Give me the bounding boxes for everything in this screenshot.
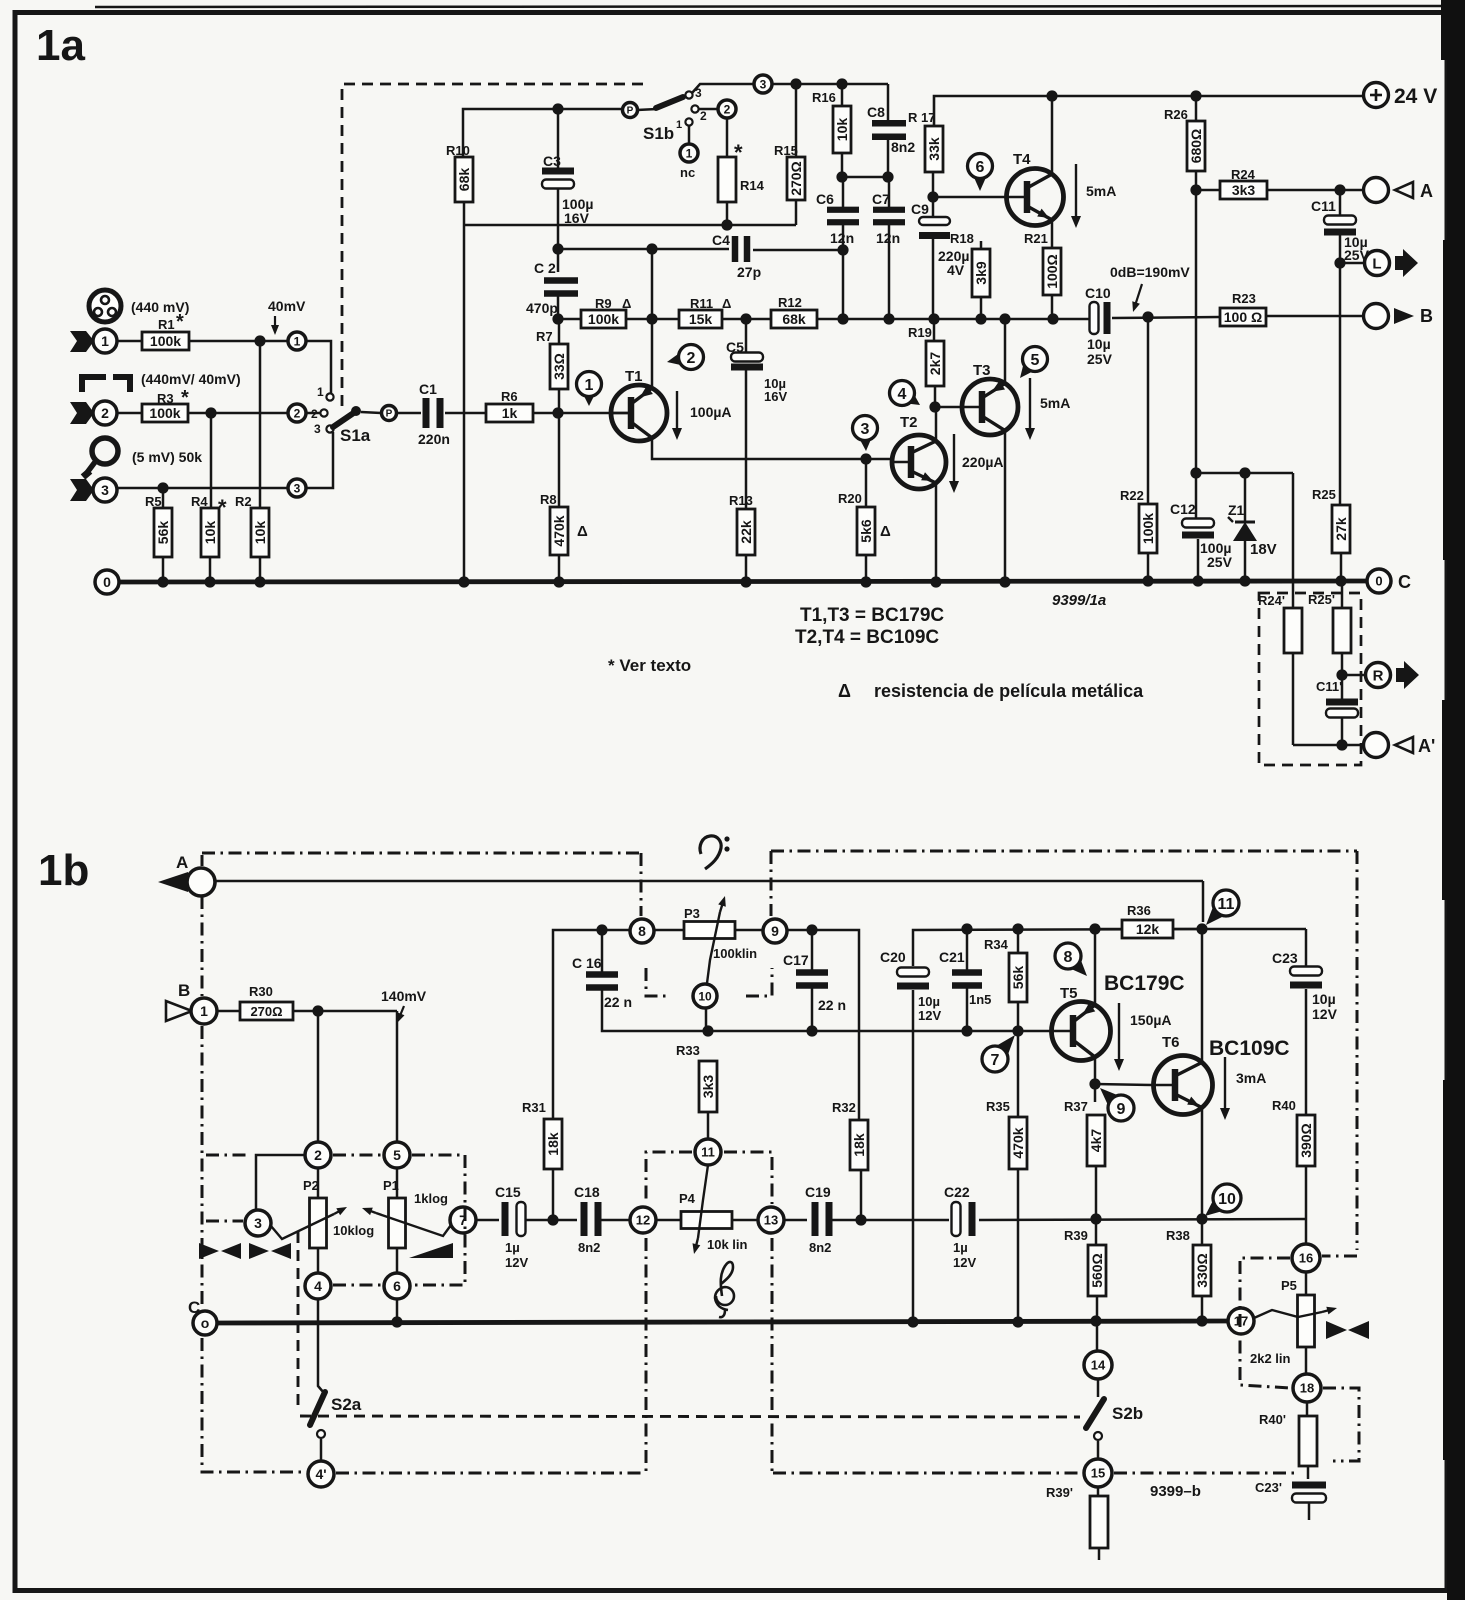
wire [1201, 1296, 1204, 1322]
label 5mA [1040, 395, 1070, 411]
wire [1266, 315, 1363, 318]
svg-text:140mV: 140mV [381, 988, 427, 1004]
node 4 [305, 1273, 331, 1299]
dashdot bracket 10 right [746, 968, 772, 996]
wire [1305, 1166, 1308, 1244]
input arrow 3 [70, 479, 94, 501]
wire [1201, 929, 1204, 1062]
dashdot top left [202, 852, 641, 855]
resistor R18 [972, 249, 990, 297]
resistor R6 [486, 404, 533, 422]
svg-text:18: 18 [1300, 1381, 1314, 1396]
label R23 [1232, 291, 1256, 306]
wire [979, 1219, 1306, 1220]
label R34 [984, 937, 1009, 952]
potentiometer P1 [389, 1198, 406, 1248]
resistor R40 [1297, 1115, 1315, 1166]
label 12n [876, 230, 900, 246]
wire [888, 177, 891, 210]
wire [811, 986, 814, 1031]
wire [1292, 473, 1295, 608]
S1b contact 3 [685, 86, 702, 100]
svg-text:68k: 68k [782, 311, 806, 327]
svg-text:560Ω: 560Ω [1089, 1253, 1105, 1288]
svg-text:18k: 18k [851, 1133, 867, 1157]
svg-text:12k: 12k [1136, 921, 1160, 937]
label C7 [872, 191, 890, 207]
svg-text:1µ: 1µ [953, 1240, 968, 1255]
svg-text:10: 10 [698, 989, 712, 1003]
potentiometer P4 [681, 1212, 732, 1229]
current arrow T1 [672, 391, 682, 440]
dashdot bracket P5 [1240, 1258, 1291, 1388]
wire [1095, 928, 1122, 931]
nc node [680, 144, 698, 162]
ground rail 1b [217, 1321, 1228, 1323]
svg-text:9: 9 [1117, 1101, 1126, 1118]
node R18 bottom [975, 313, 986, 324]
label C20 value [918, 994, 941, 1023]
label C11p [1316, 679, 1342, 694]
svg-text:27k: 27k [1333, 517, 1349, 541]
node 4p [308, 1461, 334, 1487]
label R24p [1258, 593, 1285, 608]
svg-text:C: C [1398, 572, 1411, 592]
label 8n2 [891, 139, 915, 155]
svg-text:1µ: 1µ [505, 1240, 520, 1255]
node 8 [630, 919, 654, 943]
label C [188, 1298, 200, 1317]
resistor R31 [544, 1119, 562, 1169]
node C11 top [1334, 184, 1345, 195]
svg-text:100Ω: 100Ω [1044, 254, 1060, 289]
svg-text:P2: P2 [303, 1178, 319, 1193]
resistor R1 [142, 332, 189, 350]
wire [1339, 190, 1342, 216]
dashed box R24p [1259, 593, 1361, 765]
label R1 [158, 311, 184, 333]
wire [1095, 1166, 1098, 1219]
current arrow T2 [949, 434, 959, 493]
wire [1147, 317, 1150, 504]
label 10klog [333, 1223, 374, 1238]
junction [553, 576, 564, 587]
wire [1051, 96, 1054, 174]
label (440mV) [131, 299, 189, 315]
resistor R37 [1087, 1115, 1105, 1166]
svg-text:8n2: 8n2 [891, 139, 915, 155]
svg-text:B: B [1420, 306, 1433, 326]
S1a contact 1 [317, 385, 334, 401]
svg-text:3: 3 [294, 481, 301, 495]
label S2a [331, 1395, 362, 1414]
label 18V [1250, 541, 1277, 558]
resistor R36 [1122, 920, 1173, 938]
label C1 [419, 381, 437, 397]
node C11p bottom [1336, 739, 1347, 750]
svg-text:R7: R7 [536, 329, 553, 344]
wire [259, 557, 262, 582]
dashdot top right [771, 850, 1357, 853]
svg-text:C 2: C 2 [534, 260, 556, 276]
capacitor C22 [952, 1202, 976, 1236]
svg-text:R30: R30 [249, 984, 273, 999]
label Z1 [1228, 502, 1245, 518]
flag 4 [890, 381, 921, 406]
wire [1201, 1108, 1204, 1245]
arrow A in [158, 872, 188, 892]
svg-text:1: 1 [101, 333, 109, 349]
wire [117, 412, 142, 415]
label C19 [805, 1184, 831, 1200]
svg-text:C9: C9 [911, 201, 929, 217]
svg-text:A: A [1420, 181, 1433, 201]
svg-text:R35: R35 [986, 1099, 1010, 1114]
svg-text:C18: C18 [574, 1184, 600, 1200]
svg-text:R34: R34 [984, 937, 1009, 952]
svg-text:R18: R18 [950, 231, 974, 246]
wire [626, 318, 679, 321]
svg-text:R16: R16 [812, 90, 836, 105]
svg-text:C22: C22 [944, 1184, 970, 1200]
svg-text:2: 2 [700, 109, 707, 123]
node C6 top [836, 171, 847, 182]
label C8 [867, 104, 885, 120]
wire [1017, 1002, 1020, 1031]
dashdot right spine [1356, 851, 1359, 1250]
wire [396, 1168, 399, 1198]
S1b contact 2 [691, 105, 707, 123]
node R36 left [1089, 923, 1100, 934]
svg-text:270Ω: 270Ω [250, 1004, 282, 1019]
node T2 base [860, 453, 871, 464]
svg-text:R39': R39' [1046, 1485, 1073, 1500]
wiper P1 [362, 1208, 451, 1236]
node 15 [1084, 1459, 1112, 1487]
arrow R [1396, 661, 1419, 689]
resistor R25p [1333, 608, 1351, 653]
label R19 [908, 325, 932, 340]
capacitor C1 [423, 398, 444, 428]
junction [204, 576, 215, 587]
label R20 delta [880, 523, 891, 540]
node R37 bottom [1090, 1213, 1101, 1224]
wire [1341, 581, 1344, 608]
wire [1340, 262, 1364, 265]
wire [795, 84, 798, 157]
resistor R24 [1220, 181, 1267, 199]
dashdot left spine [202, 855, 306, 1472]
svg-text:15k: 15k [689, 311, 713, 327]
wire [117, 340, 142, 343]
svg-text:T5: T5 [1060, 985, 1078, 1002]
wire [1004, 319, 1007, 383]
svg-text:6: 6 [393, 1278, 401, 1294]
node 9 [763, 919, 787, 943]
svg-text:R36: R36 [1127, 903, 1151, 918]
label C23 value [1312, 991, 1338, 1022]
wire [795, 200, 798, 225]
svg-text:T4: T4 [1013, 151, 1031, 168]
wire [817, 318, 1089, 321]
node R38 top [1196, 1213, 1207, 1224]
label (5mV) 50k [132, 449, 202, 465]
node R24 left [1190, 184, 1201, 195]
svg-text:T6: T6 [1162, 1034, 1180, 1051]
svg-text:C15: C15 [495, 1184, 521, 1200]
svg-text:C20: C20 [880, 949, 906, 965]
junction [391, 1316, 402, 1327]
wire [306, 341, 331, 393]
label 100klin [713, 946, 757, 961]
capacitor C9 [919, 217, 950, 239]
wire [1051, 220, 1054, 248]
node P1b [623, 103, 638, 118]
svg-text:15: 15 [1091, 1466, 1105, 1481]
svg-text:R24': R24' [1258, 593, 1285, 608]
wire [654, 929, 684, 932]
dashdot drop 9 [770, 851, 773, 916]
terminal B 1b [191, 998, 217, 1024]
wire [865, 459, 868, 507]
svg-text:S2b: S2b [1112, 1404, 1143, 1423]
wire [1195, 171, 1198, 473]
wire [552, 1169, 555, 1220]
label R18 [950, 231, 974, 246]
svg-text:o: o [201, 1315, 210, 1331]
wire [445, 412, 486, 415]
label S1b [643, 124, 674, 143]
label C20 [880, 949, 906, 965]
wire [558, 319, 561, 344]
wire [210, 413, 213, 508]
wire [935, 484, 938, 582]
capacitor C11p [1326, 699, 1358, 718]
potentiometer P3 [684, 922, 735, 939]
selector node 2 [288, 404, 306, 422]
capacitor C15 [502, 1202, 526, 1236]
svg-text:6: 6 [976, 159, 985, 176]
section label 1a [36, 21, 85, 70]
svg-text:C19: C19 [805, 1184, 831, 1200]
label C9 value [938, 248, 969, 278]
svg-text:C23: C23 [1272, 950, 1298, 966]
svg-text:25V: 25V [1207, 554, 1233, 570]
svg-text:C23': C23' [1255, 1480, 1282, 1495]
wire [476, 1219, 499, 1222]
svg-text:27p: 27p [737, 264, 761, 280]
label C17 value [818, 997, 846, 1013]
svg-text:8: 8 [638, 923, 646, 939]
label R31 [522, 1100, 546, 1115]
svg-text:P5: P5 [1281, 1278, 1297, 1293]
wire [932, 197, 935, 218]
label R38 [1166, 1228, 1190, 1243]
wire [317, 1011, 320, 1142]
label C12 value [1200, 540, 1233, 570]
wire [1173, 928, 1306, 931]
node C3 top [552, 103, 563, 114]
current arrow T3 [1025, 378, 1035, 440]
node P2 top [312, 1005, 323, 1016]
label R22 [1120, 488, 1144, 503]
transistor T6 [1154, 1056, 1213, 1115]
wire [887, 137, 890, 177]
transistor T4 [1007, 169, 1064, 226]
resistor R23 [1220, 308, 1266, 326]
capacitor C10 [1090, 302, 1111, 334]
wire [1095, 1084, 1153, 1085]
label C5 value [764, 376, 787, 404]
junction [458, 576, 469, 587]
svg-text:R19: R19 [908, 325, 932, 340]
svg-text:3k9: 3k9 [973, 261, 989, 285]
label P5 [1281, 1278, 1297, 1293]
svg-text:3: 3 [254, 1215, 262, 1231]
node R11-R12 [740, 313, 751, 324]
flag 5 [1020, 347, 1048, 379]
svg-text:(5 mV) 50k: (5 mV) 50k [132, 449, 202, 465]
label 5mA T4 [1086, 183, 1116, 199]
svg-text:Δ: Δ [577, 523, 588, 540]
wire [1340, 553, 1343, 581]
wire [722, 318, 771, 321]
label R7 [536, 329, 553, 344]
svg-text:9399/1a: 9399/1a [1052, 592, 1106, 609]
junction [157, 576, 168, 587]
potentiometer P5 [1298, 1295, 1315, 1347]
svg-text:P3: P3 [684, 906, 700, 921]
svg-text:22k: 22k [738, 520, 754, 544]
svg-text:9: 9 [771, 923, 779, 939]
wire [753, 249, 843, 252]
legend metal film [838, 681, 1144, 701]
wire [705, 1008, 708, 1031]
wire [811, 930, 814, 973]
node C9 bottom [928, 313, 939, 324]
wire [1306, 1402, 1309, 1416]
resistor R25 [1332, 505, 1350, 553]
arrow Ap [1395, 736, 1435, 756]
wire [188, 412, 288, 415]
dashdot 5 bracket [412, 1155, 465, 1285]
svg-text:R32: R32 [832, 1100, 856, 1115]
node C21 top [961, 923, 972, 934]
wire [463, 225, 466, 582]
svg-text:R 17: R 17 [908, 110, 935, 125]
label R5 [145, 494, 162, 509]
svg-text:R2: R2 [235, 494, 252, 509]
svg-text:R38: R38 [1166, 1228, 1190, 1243]
wire [1305, 1272, 1308, 1295]
svg-text:R14: R14 [740, 178, 765, 193]
svg-text:12V: 12V [918, 1008, 941, 1023]
node R9-R11 [646, 313, 657, 324]
node T3 collector [999, 313, 1010, 324]
wire [553, 930, 630, 1119]
switch S1a lever [333, 406, 361, 427]
svg-text:L: L [1372, 255, 1381, 272]
svg-text:1k: 1k [502, 405, 518, 421]
label R20 [838, 491, 862, 506]
wiper P5 [1254, 1307, 1337, 1318]
svg-text:56k: 56k [155, 521, 171, 545]
label R32 [832, 1100, 856, 1115]
wire [1195, 473, 1198, 519]
wire [1267, 189, 1363, 192]
svg-text:270Ω: 270Ω [788, 161, 804, 196]
flag 11 [1206, 890, 1239, 925]
label R11 [690, 296, 731, 311]
transistor T2 [892, 435, 946, 489]
input terminal 1 [93, 329, 117, 353]
junction [1090, 1315, 1101, 1326]
node C6 bottom [837, 313, 848, 324]
capacitor C5 [731, 353, 763, 371]
svg-text:1: 1 [317, 385, 324, 399]
microphone icon [83, 438, 118, 477]
svg-text:R39: R39 [1064, 1228, 1088, 1243]
svg-text:3mA: 3mA [1236, 1070, 1266, 1086]
svg-text:100µA: 100µA [690, 404, 732, 420]
wire [745, 370, 748, 509]
svg-text:10µ: 10µ [1087, 336, 1111, 352]
label R39 [1064, 1228, 1088, 1243]
svg-text:18k: 18k [545, 1132, 561, 1156]
node R26 top [1190, 90, 1201, 101]
wire [533, 412, 630, 415]
resistor R4 [201, 508, 219, 557]
label 470p [526, 300, 558, 316]
resistor R19 [926, 341, 944, 386]
label 150µA [1130, 1012, 1172, 1028]
svg-text:1n5: 1n5 [969, 992, 991, 1007]
wire [1292, 653, 1295, 745]
svg-text:2: 2 [687, 350, 696, 367]
label P1 [383, 1178, 399, 1193]
wire [966, 929, 969, 973]
node R32 bottom [855, 1214, 866, 1225]
label P3 [684, 906, 700, 921]
svg-text:2: 2 [311, 407, 318, 421]
svg-text:12V: 12V [953, 1255, 976, 1270]
resistor R9 [581, 310, 626, 328]
svg-text:C1: C1 [419, 381, 437, 397]
wire [558, 413, 561, 507]
svg-text:8: 8 [1064, 949, 1073, 966]
label S1a [340, 426, 371, 445]
label R37 [1064, 1099, 1088, 1114]
node 10 [693, 984, 717, 1008]
svg-text:2: 2 [294, 406, 301, 420]
label 1klog [414, 1191, 448, 1206]
scanner edge band [1441, 0, 1465, 1600]
svg-text:R33: R33 [676, 1043, 700, 1058]
svg-text:16V: 16V [564, 210, 590, 226]
node C4 branch [646, 243, 657, 254]
arrow A [1395, 181, 1433, 201]
svg-text:40mV: 40mV [268, 298, 306, 314]
node 7 [450, 1207, 476, 1233]
svg-text:14: 14 [1091, 1358, 1106, 1373]
node A3 [157, 482, 168, 493]
label 220n [418, 431, 450, 447]
svg-text:2k2 lin: 2k2 lin [1250, 1351, 1291, 1366]
node R34 top [1012, 923, 1023, 934]
svg-text:C17: C17 [783, 952, 809, 968]
node C7 top [882, 171, 893, 182]
wiper P3 [706, 896, 726, 991]
